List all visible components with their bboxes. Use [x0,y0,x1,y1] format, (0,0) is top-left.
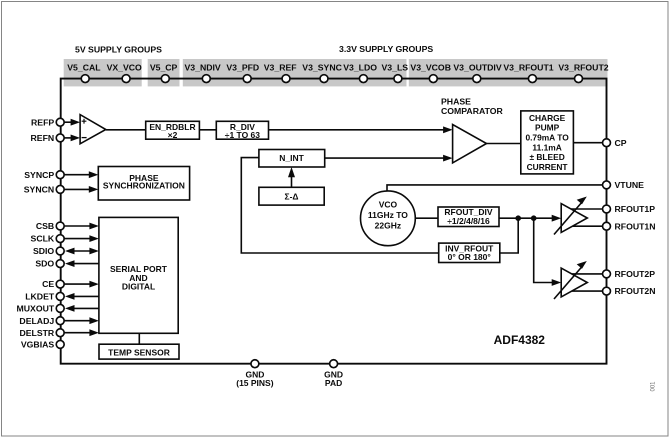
wire SYNCN [65,188,91,190]
svg-text:÷1/2/4/8/16: ÷1/2/4/8/16 [447,216,490,226]
svg-text:Σ-Δ: Σ-Δ [284,192,298,202]
output amp A2 [561,268,587,297]
wire R_DIV to phase comparator ref input [269,129,445,131]
block PHASE SYNCHRONIZATION [98,167,189,201]
pin V5_CP [161,75,169,83]
svg-text:ADF4382: ADF4382 [494,333,546,347]
wire SDIO to serial port [72,250,91,252]
svg-text:PAD: PAD [325,378,342,388]
svg-text:RFOUT1N: RFOUT1N [615,221,656,231]
svg-text:VGBIAS: VGBIAS [21,340,55,350]
svg-text:V3_SYNC: V3_SYNC [302,63,342,73]
svg-text:REFP: REFP [31,117,54,127]
junction node RFOUT2 branch [531,215,537,221]
wire branch to amp A2 [534,218,554,282]
pin V3_VCOB [429,75,437,83]
chip boundary outline [61,79,607,364]
wire MUXOUT to serial port [72,307,99,309]
wire amp A1 to RFOUT1P [565,208,603,210]
svg-text:CP: CP [615,138,627,148]
svg-text:0° OR 180°: 0° OR 180° [448,252,492,262]
svg-text:PUMP: PUMP [535,123,560,133]
wire REFN into buffer [65,137,73,139]
wire REFP into buffer [65,121,73,123]
pin RFOUT2P [603,270,611,278]
svg-text:COMPARATOR: COMPARATOR [441,106,503,116]
svg-text:V5_CAL: V5_CAL [67,63,101,73]
svg-text:(15 PINS): (15 PINS) [236,378,273,388]
pin DELADJ [56,317,64,325]
pin CSB [56,222,64,230]
svg-text:V3_REF: V3_REF [264,63,297,73]
wire SDO to serial port [72,263,99,265]
phase comparator [453,125,487,163]
svg-text:PHASE: PHASE [441,96,471,106]
wire comparator to charge pump [487,143,521,145]
svg-text:V3_RFOUT1: V3_RFOUT1 [503,63,553,73]
pin V3_LS [394,75,402,83]
wire VCO to RFOUT_DIV [415,217,438,219]
svg-text:DELADJ: DELADJ [19,316,54,326]
svg-text:3.3V SUPPLY GROUPS: 3.3V SUPPLY GROUPS [339,44,433,54]
svg-text:SYNCHRONIZATION: SYNCHRONIZATION [103,180,185,190]
block N_INT [259,150,325,168]
pin VGBIAS [56,340,64,348]
pin REFN [56,134,64,142]
3.3V supply group bar V3_VCOB..V3_RFOUT2 [409,59,608,86]
wire DELSTR to serial port [65,332,92,334]
wire buffer to EN_RDBLR [106,129,146,131]
svg-text:11.1mA: 11.1mA [532,142,561,152]
svg-text:SCLK: SCLK [31,234,55,244]
block INV_RFOUT [439,243,500,262]
svg-text:×2: ×2 [168,130,178,140]
pin V3_LDO [359,75,367,83]
block EN_RDBLR x2 doubler [146,121,200,139]
block sigma-delta modulator [259,187,324,205]
pin V3_PFD [243,75,251,83]
gain arrow amp A1 [554,202,583,235]
wire sigma-delta to N_INT [291,175,293,187]
3.3V supply group bar V3_NDIV..V3_LS [183,59,407,86]
svg-text:VX_VCO: VX_VCO [107,63,142,73]
feedback wire from INV_RFOUT to N_INT [241,158,438,253]
svg-text:CHARGE: CHARGE [529,113,566,123]
wire amp A2 to RFOUT2N [565,290,603,292]
svg-text:V3_OUTDIV: V3_OUTDIV [453,63,501,73]
5V supply group bar V5_CAL/VX_VCO [64,59,142,86]
wire serial port to temp sensor [138,333,140,344]
pin V3_NDIV [202,75,210,83]
svg-text:LKDET: LKDET [25,292,55,302]
junction node INV_RFOUT branch [515,215,521,221]
pin SDO [56,260,64,268]
svg-text:SYNCP: SYNCP [24,170,54,180]
pin SYNCP [56,171,64,179]
svg-text:V3_LS: V3_LS [382,63,409,73]
svg-text:001: 001 [651,381,657,392]
svg-text:V3_LDO: V3_LDO [343,63,377,73]
wire DELADJ to serial port [65,320,92,322]
block TEMP SENSOR [99,344,179,359]
VCO 11GHz to 22GHz [361,191,416,246]
wire amp A2 to RFOUT2P [565,273,603,275]
pin V3_SYNC [320,75,328,83]
svg-text:VCO: VCO [379,199,398,209]
pin SYNCN [56,185,64,193]
wire N_INT to phase comparator feedback input [325,157,444,159]
pin LKDET [56,292,64,300]
svg-text:V3_NDIV: V3_NDIV [184,63,220,73]
pin VX_VCO [122,75,130,83]
svg-text:DIGITAL: DIGITAL [122,282,155,292]
pin CP [603,139,611,147]
wire CSB to serial port [65,225,92,227]
block SERIAL PORT AND DIGITAL [99,217,178,333]
gain arrow amp A2 [554,266,583,299]
wire charge pump to CP pin [573,142,602,144]
svg-text:0.79mA TO: 0.79mA TO [525,133,569,143]
pin V3_OUTDIV [473,75,481,83]
svg-text:V5_CP: V5_CP [150,63,178,73]
svg-text:N_INT: N_INT [279,153,304,163]
pin V5_CAL [81,75,89,83]
svg-text:÷1 TO 63: ÷1 TO 63 [225,130,260,140]
svg-text:SDIO: SDIO [33,246,54,256]
5V supply group bar V5_CP [148,59,180,86]
pin GND 15 pins [251,360,259,368]
svg-text:VTUNE: VTUNE [615,180,645,190]
svg-text:TEMP SENSOR: TEMP SENSOR [108,347,170,357]
pin RFOUT1N [603,222,611,230]
svg-text:REFN: REFN [31,133,55,143]
wire SYNCP [65,174,91,176]
pin RFOUT2N [603,287,611,295]
wire amp A1 to RFOUT1N [565,225,603,227]
pin REFP [56,118,64,126]
svg-text:DELSTR: DELSTR [19,328,54,338]
wire INV_RFOUT to junction [500,218,518,253]
pin GND PAD [330,360,338,368]
reference input buffer [80,115,106,144]
output amp A1 [561,204,587,233]
svg-text:V3_RFOUT2: V3_RFOUT2 [558,63,608,73]
wire CE to serial port [65,283,92,285]
pin SDIO [56,247,64,255]
svg-text:V3_PFD: V3_PFD [226,63,259,73]
block RFOUT_DIV [438,207,499,227]
svg-text:RFOUT2P: RFOUT2P [615,269,656,279]
svg-text:SYNCN: SYNCN [24,185,54,195]
pin V3_REF [282,75,290,83]
pin SCLK [56,235,64,243]
svg-text:MUXOUT: MUXOUT [17,304,55,314]
pin V3_RFOUT2 [575,75,583,83]
block R_DIV divider [216,121,268,139]
svg-text:RFOUT2N: RFOUT2N [615,286,656,296]
svg-text:CSB: CSB [36,221,54,231]
wire RFOUT_DIV to output amps [499,217,554,219]
pin RFOUT1P [603,205,611,213]
svg-text:SDO: SDO [35,259,54,269]
pin VTUNE [603,181,611,189]
svg-text:11GHz TO: 11GHz TO [368,210,408,220]
svg-text:22GHz: 22GHz [375,221,401,231]
wire EN_RDBLR to R_DIV [199,129,216,131]
wire VCO to VTUNE pin [387,185,603,191]
pin DELSTR [56,329,64,337]
wire LKDET to serial port [72,295,99,297]
wire SCLK to serial port [65,238,92,240]
pin V3_RFOUT1 [528,75,536,83]
block CHARGE PUMP [521,111,574,174]
svg-text:V3_VCOB: V3_VCOB [410,63,451,73]
svg-text:± BLEED: ± BLEED [529,152,564,162]
pin CE [56,280,64,288]
svg-text:5V SUPPLY GROUPS: 5V SUPPLY GROUPS [75,45,162,55]
pin MUXOUT [56,304,64,312]
svg-text:CE: CE [42,279,54,289]
svg-text:RFOUT1P: RFOUT1P [615,204,656,214]
svg-text:CURRENT: CURRENT [527,162,569,172]
